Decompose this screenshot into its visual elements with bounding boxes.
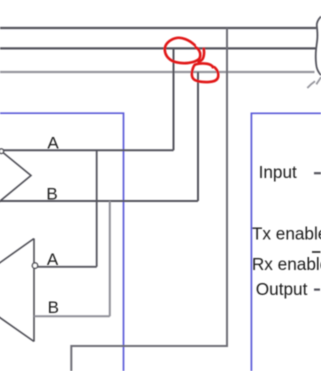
svg-text:A: A	[47, 250, 59, 269]
svg-text:B: B	[46, 184, 57, 203]
svg-text:Rx enable: Rx enable	[252, 254, 321, 274]
svg-text:Input: Input	[259, 162, 297, 182]
svg-text:Output: Output	[256, 279, 308, 299]
svg-text:Tx enable: Tx enable	[252, 224, 321, 244]
svg-text:B: B	[48, 298, 59, 317]
svg-text:A: A	[47, 134, 59, 153]
